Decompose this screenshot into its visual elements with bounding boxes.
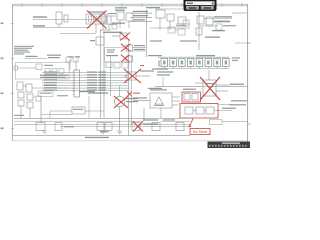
wire [60, 33, 96, 35]
capacitor C5302 [178, 17, 186, 24]
label text [115, 10, 125, 11]
wire [42, 79, 129, 81]
net label [212, 30, 225, 31]
label text [146, 7, 160, 8]
net label bus 1c [99, 71, 107, 72]
rail wire [14, 124, 190, 126]
label text [157, 74, 170, 75]
resistor R7202 [114, 63, 120, 69]
fuse F9700 [184, 94, 190, 101]
net label bus 3a [44, 77, 57, 78]
net label bus 2b [87, 74, 97, 75]
net label [14, 115, 24, 116]
markup X over U8100 [200, 77, 220, 100]
net label [183, 89, 196, 90]
resistor R5402 [196, 28, 202, 35]
ic U6600 body [72, 107, 85, 114]
net label bus 8c [99, 89, 107, 90]
vertical bus [130, 55, 132, 125]
border row label 3 [1, 93, 4, 95]
sheet border bottom [13, 140, 248, 142]
wire [216, 90, 228, 92]
note text [196, 55, 215, 56]
wire [75, 60, 77, 70]
wire [216, 84, 230, 86]
markup X over XW1 [87, 11, 107, 29]
border left tick 3 [11, 93, 14, 95]
resistor R9800 [185, 107, 193, 114]
border left tick 2 [11, 58, 14, 60]
net label bus 4a [44, 79, 57, 80]
label box [38, 91, 53, 97]
wire [33, 27, 90, 29]
wire [172, 104, 178, 106]
module XW1 cell 3 [99, 16, 102, 22]
wire [204, 110, 206, 112]
transformer T9000 symbol [155, 97, 163, 104]
label text [157, 71, 173, 72]
wire [42, 71, 129, 73]
wire [128, 21, 130, 28]
resistor R5601 [26, 84, 32, 92]
net label [133, 11, 148, 12]
label text [90, 40, 95, 41]
label text [44, 85, 56, 86]
resistor R9801 [196, 107, 204, 114]
wire [42, 89, 129, 91]
markup X over C6702 [133, 122, 143, 132]
capacitor C5101 [64, 15, 68, 22]
markup red box 1 [182, 92, 201, 102]
wire [42, 85, 129, 87]
label text [150, 89, 167, 90]
widget stepper [212, 2, 215, 6]
wire [176, 23, 190, 25]
vertical bus [145, 10, 147, 57]
net label [112, 23, 125, 24]
net label [143, 123, 158, 124]
capacitor C6705 [55, 123, 62, 131]
resistor R5203 [112, 24, 117, 29]
wire [218, 104, 229, 106]
resistor R5202 [126, 13, 133, 21]
border right tick a [247, 42, 251, 44]
vertical bus [100, 30, 102, 118]
wire [136, 75, 150, 77]
wire [102, 23, 104, 30]
markup red box 2 [180, 104, 218, 119]
net label [126, 98, 138, 99]
resistor R6001 [66, 57, 71, 62]
net label [134, 49, 145, 50]
wire [169, 21, 171, 30]
title block text line 1 [222, 143, 240, 144]
wire [160, 108, 162, 118]
wire [175, 29, 178, 31]
wire [25, 58, 47, 60]
wire [33, 19, 96, 21]
callout leader line [190, 119, 194, 127]
label text [47, 55, 61, 56]
wire [213, 21, 230, 23]
wire [69, 60, 71, 70]
cap array C803 [187, 59, 194, 67]
net label bus 8b [87, 89, 97, 90]
net label [57, 95, 68, 96]
rail wire [14, 120, 125, 122]
net label [230, 84, 244, 85]
label text [154, 105, 164, 106]
wire [85, 110, 104, 112]
rail wire [14, 117, 193, 119]
net label [64, 126, 74, 127]
note text [229, 104, 246, 105]
capacitor C6703 [152, 123, 160, 131]
label text [150, 40, 162, 41]
net label [222, 108, 236, 109]
net label [26, 56, 38, 57]
wire [41, 114, 72, 116]
module XW1 body [86, 14, 107, 24]
resistor R6500 [27, 94, 33, 100]
red annotation [140, 65, 144, 66]
ic U5400 [197, 16, 204, 24]
wire [119, 20, 121, 28]
net label [106, 55, 118, 56]
title block text line 2 [209, 145, 211, 146]
capacitor C5500 [52, 69, 57, 74]
capacitor C5305 [178, 29, 185, 35]
net label [133, 15, 148, 16]
net label [214, 21, 230, 22]
wire [130, 12, 152, 14]
resistor R7201 [106, 62, 112, 68]
label text [107, 52, 114, 53]
wire [208, 70, 210, 80]
note text line 5 [14, 53, 24, 54]
net label [88, 92, 108, 93]
wire [110, 24, 117, 26]
note text [232, 57, 240, 58]
net label [134, 45, 145, 46]
net label [205, 83, 214, 84]
wire [162, 77, 164, 87]
markup X over M7200 [114, 96, 128, 108]
wire [20, 106, 22, 118]
net label bus 7c [99, 87, 107, 88]
markup X small [127, 92, 132, 97]
ic U8100 [203, 80, 216, 96]
connector J6000 pins [73, 71, 74, 73]
wire [112, 35, 120, 37]
net label bus 7b [87, 87, 97, 88]
wire [108, 24, 110, 30]
net label bus 6b [87, 85, 97, 86]
wire [235, 42, 247, 44]
transistor Q5600 [17, 82, 23, 90]
vertical bus [103, 33, 105, 118]
border right tick b [247, 123, 251, 125]
note text [180, 40, 197, 41]
sheet border right [247, 4, 249, 148]
resistor R5501 [45, 69, 50, 74]
label text [48, 57, 60, 58]
widget button left label [189, 7, 196, 8]
net label [108, 13, 116, 14]
capacitor C5105 [107, 16, 111, 24]
wire [124, 75, 127, 77]
wire [172, 100, 180, 102]
wire [58, 24, 60, 28]
resistor R5100 [56, 12, 62, 24]
power rail wire [155, 86, 247, 88]
resistor R5401 [206, 17, 213, 25]
wire [32, 87, 70, 89]
cap array C807 [223, 59, 230, 67]
net label bus 5c [99, 82, 107, 83]
fuse F9701 [192, 94, 198, 101]
border left tick 4 [11, 128, 14, 130]
net label bus 6a [44, 85, 57, 86]
resistor R9802 [206, 107, 214, 114]
resistor R7203 [122, 63, 128, 69]
label text [100, 131, 109, 132]
wire [95, 24, 97, 33]
cap array C804 [196, 59, 203, 67]
widget input text [187, 3, 193, 4]
wire [204, 18, 232, 20]
cap array C800 [161, 59, 168, 67]
wire [159, 18, 161, 30]
wire [155, 8, 183, 10]
module XW1 cell 2 [94, 16, 97, 22]
net label bus 7a [44, 87, 57, 88]
wire [130, 20, 152, 22]
net label [126, 101, 138, 102]
motor M7200 [115, 96, 125, 106]
note text [231, 100, 247, 101]
net label [79, 91, 95, 92]
resistor R6502 [36, 96, 41, 101]
wire [42, 82, 129, 84]
net label bus 8a [44, 89, 57, 90]
module XW1 pin labels [88, 11, 105, 12]
net label [85, 137, 109, 138]
label text [40, 93, 52, 94]
net label row [40, 77, 66, 78]
widget frame [184, 0, 217, 11]
note text line 2 [14, 48, 32, 49]
label text [107, 49, 115, 50]
wire [232, 12, 247, 14]
vertical bus [128, 40, 130, 136]
callout No Short box [190, 129, 210, 135]
wire [161, 120, 190, 122]
net label bus 5b [87, 82, 97, 83]
label text [44, 65, 53, 66]
cap array C801 [170, 59, 177, 67]
net label bus 4b [87, 79, 97, 80]
wire [18, 67, 37, 69]
transformer T9000 box [150, 93, 172, 108]
resistor R5500 [36, 64, 42, 70]
ground symbol [100, 131, 106, 134]
label text [73, 109, 83, 110]
resistor R6501 [27, 102, 33, 108]
note text line 1 [14, 46, 34, 47]
label text [148, 55, 162, 56]
widget button left [186, 6, 199, 9]
callout arrowhead [189, 125, 192, 128]
wire [111, 15, 117, 17]
ic U5300 [156, 10, 165, 18]
net label PP3V3_S5 [103, 32, 122, 33]
title block divider [208, 143, 251, 145]
wire [195, 82, 203, 84]
transistor Q7100 [127, 72, 136, 80]
sheet border left [12, 4, 14, 141]
diode D5500 [14, 66, 18, 70]
resistor R5403 [216, 24, 222, 30]
net label bus 2a [44, 74, 57, 75]
wire [33, 96, 36, 98]
wire [133, 100, 150, 102]
wire [88, 96, 90, 118]
connector box [210, 120, 223, 125]
net label bus 5a [44, 82, 57, 83]
cap array C805 [205, 59, 212, 67]
capacitor C7000 [120, 33, 127, 39]
section box [15, 63, 69, 80]
capacitor C6700 [36, 123, 45, 131]
capacitor C5304 [168, 27, 175, 33]
capacitor C5303 [183, 20, 189, 26]
note text line 3 [14, 50, 28, 51]
resistor R5502 [59, 69, 64, 74]
diode D6500 [18, 92, 24, 98]
svg-text:No Short: No Short [193, 130, 207, 134]
markup X over C7002 [121, 55, 130, 62]
markup X over C7001 [121, 44, 131, 52]
component G cluster [96, 37, 104, 45]
title block bar [208, 142, 251, 149]
wire [42, 77, 129, 79]
border row label 1 [1, 23, 4, 25]
net label bus 3b [87, 77, 97, 78]
wire [50, 110, 72, 112]
cap array C806 [214, 59, 221, 67]
widget button right [201, 6, 214, 9]
rail wire [158, 68, 229, 70]
wire [42, 87, 129, 89]
border row label 2 [1, 58, 4, 60]
wire [42, 74, 129, 76]
vertical bus [110, 55, 112, 96]
wire [172, 96, 180, 98]
net label [163, 119, 175, 120]
wire [198, 12, 200, 50]
diode D6501 [18, 100, 24, 106]
wire [29, 108, 31, 118]
wire [119, 107, 121, 131]
markup X over Q7100 [124, 69, 141, 83]
regulator section outline [105, 48, 127, 63]
net label bus 1a [44, 71, 57, 72]
capacitor C7001 [126, 45, 133, 51]
ground symbol [117, 131, 123, 134]
cap array C802 [179, 59, 186, 67]
pin label [158, 61, 160, 67]
net label [176, 25, 186, 26]
net label bus 6c [99, 85, 107, 86]
capacitor C6704 [176, 123, 184, 131]
wire [143, 108, 145, 121]
net label PPBUS_G3H [33, 16, 47, 17]
bottom bus wire [13, 135, 191, 137]
net label [214, 16, 232, 17]
note text [232, 60, 238, 61]
net label [143, 119, 158, 120]
net label bus 3c [99, 77, 107, 78]
resistor R6002 [73, 57, 78, 62]
label text [115, 7, 127, 8]
wire [133, 50, 147, 52]
label text [140, 70, 154, 71]
resistor R5201 [117, 12, 124, 20]
capacitor C7002 [126, 56, 133, 62]
net label bus 4c [99, 79, 107, 80]
ground symbol [42, 131, 47, 134]
wire [199, 25, 218, 27]
net label SMC_RESET_L [33, 25, 45, 26]
net label [205, 37, 220, 38]
widget button right label [204, 7, 211, 8]
capacitor C6702 [132, 123, 140, 131]
inductor L5100 [100, 14, 105, 23]
wire [23, 85, 26, 87]
wire [103, 50, 105, 55]
wire [130, 16, 152, 18]
net label [133, 19, 145, 20]
net label bus 1b [87, 71, 97, 72]
note text line 4 [14, 52, 30, 53]
wire [150, 27, 190, 29]
label text [148, 88, 162, 89]
capacitor C5301 [167, 14, 174, 21]
connector J6000 body [74, 70, 80, 97]
wire [133, 46, 147, 48]
rail wire [158, 56, 229, 58]
rail wire [60, 126, 190, 128]
module XW1 cell 4 [103, 16, 106, 22]
border row label 4 [1, 128, 4, 130]
red annotation text [133, 93, 140, 94]
wire [222, 121, 247, 123]
wire [125, 120, 143, 122]
wire [40, 97, 42, 124]
wire [214, 110, 232, 112]
net label bus 2c [99, 74, 107, 75]
border zone tick marks [21, 3, 23, 6]
wire [119, 86, 121, 96]
markup X over C7000 [120, 33, 130, 41]
label text [152, 68, 168, 69]
wire [100, 29, 111, 31]
widget input field [186, 1, 215, 5]
wire [49, 111, 51, 118]
net label row [40, 75, 68, 76]
net label [223, 25, 236, 26]
